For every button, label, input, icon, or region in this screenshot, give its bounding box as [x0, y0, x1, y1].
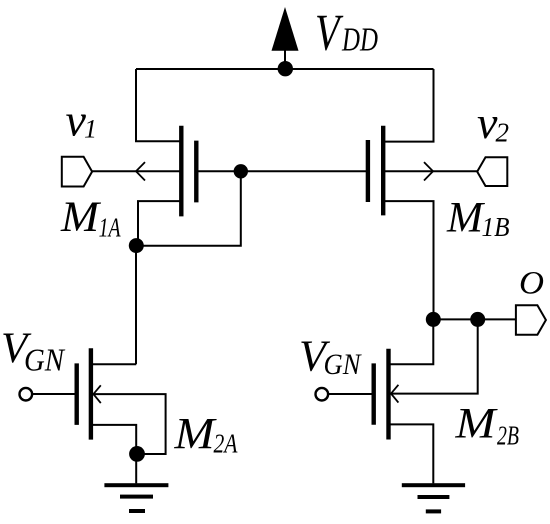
svg-text:2A: 2A [214, 429, 238, 459]
arrow M1B bulk [424, 162, 433, 180]
wire M1A bulk from v1 [92, 170, 181, 172]
wire M1B source down to output [384, 201, 434, 319]
wire M2A drain [91, 363, 136, 365]
wire M1B bulk to v2 [384, 170, 478, 172]
svg-text:GN: GN [324, 348, 363, 381]
wire M1A drain to rail [136, 69, 181, 141]
wire top rail VDD [136, 68, 434, 70]
svg-text:1: 1 [84, 115, 97, 144]
wire M2B source to ground [389, 424, 434, 483]
wire center feedback loop [136, 171, 241, 246]
port v1 pentagon [62, 157, 92, 187]
node dot M2A source-bulk [129, 446, 145, 462]
svg-text:DD: DD [341, 22, 378, 59]
label v1 [66, 95, 98, 146]
label M2A [173, 409, 237, 459]
transistor M2B channel bar [386, 349, 390, 440]
wire left drop to M2A drain [135, 246, 137, 364]
wire M2B bulk drop [389, 319, 478, 393]
arrow M1A bulk [136, 162, 145, 180]
terminal VGN left circle [20, 388, 33, 401]
ground left [104, 483, 168, 513]
arrow M2B bulk [391, 385, 398, 403]
label v2 [477, 97, 509, 148]
label O [519, 266, 544, 302]
node dot center gate bus [234, 164, 248, 178]
transistor M1A channel bar [179, 126, 183, 217]
label M2B [454, 401, 519, 451]
wire M2A source to ground [91, 425, 136, 484]
svg-text:M: M [173, 409, 217, 458]
transistor M1B gate bar [366, 140, 370, 202]
transistor M1A gate bar [194, 141, 198, 203]
transistor M2A channel bar [89, 348, 93, 439]
transistor M2A gate bar [74, 363, 78, 425]
wire gate bus M1A to M1B [197, 170, 368, 172]
port O pentagon [516, 305, 546, 334]
svg-text:M: M [60, 194, 101, 241]
wire M1A source [138, 201, 181, 246]
wire M2B drain drop [389, 319, 434, 364]
svg-text:1B: 1B [482, 212, 510, 242]
svg-text:M: M [454, 401, 498, 448]
label M1B [446, 195, 510, 243]
ground right [402, 483, 465, 513]
label M1A [60, 194, 121, 243]
label VDD [315, 5, 378, 62]
svg-text:O: O [519, 266, 544, 302]
arrow M2A bulk [93, 385, 100, 403]
svg-text:2B: 2B [497, 421, 519, 451]
svg-text:M: M [446, 195, 485, 242]
port v2 pentagon [477, 157, 507, 186]
node dot left loop [129, 238, 144, 253]
wire M2A bulk loop [91, 394, 166, 454]
svg-text:V: V [315, 5, 344, 62]
svg-text:1A: 1A [99, 213, 121, 243]
wire output node horizontal [433, 318, 516, 320]
svg-text:GN: GN [24, 342, 65, 378]
label VGN right [299, 332, 362, 382]
wire M2B gate [328, 393, 372, 395]
node dot output left [426, 312, 441, 327]
terminal VGN right circle [316, 388, 329, 401]
wire M1B drain to rail [384, 69, 434, 142]
node dot output right [470, 312, 485, 327]
power VDD symbol [272, 7, 299, 69]
node dot under VDD [278, 61, 293, 76]
svg-text:2: 2 [496, 118, 510, 148]
label VGN left [1, 325, 65, 378]
wire M2A gate [32, 393, 75, 395]
transistor M1B channel bar [381, 126, 385, 216]
transistor M2B gate bar [372, 363, 376, 424]
